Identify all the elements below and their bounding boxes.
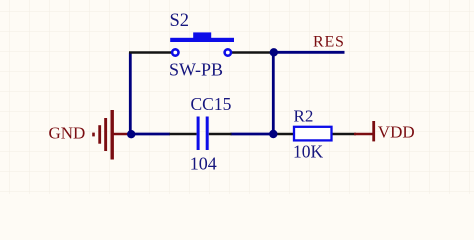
pin: resistor right lead bbox=[332, 133, 357, 135]
svg-text:CC15: CC15 bbox=[191, 94, 232, 114]
junction: bottom right node bbox=[269, 130, 277, 138]
pin: S2 pin 2 (black lead) bbox=[232, 51, 274, 53]
wire: left vertical net segment bbox=[129, 53, 132, 135]
comment SW-PB bbox=[169, 59, 223, 79]
wire: RES net horizontal segment bbox=[273, 51, 344, 54]
value label 104 bbox=[190, 154, 217, 174]
svg-text:SW-PB: SW-PB bbox=[169, 59, 223, 79]
net name GND bbox=[49, 124, 86, 143]
wire: right vertical net segment bbox=[272, 52, 275, 134]
value label 10K bbox=[293, 142, 324, 162]
svg-text:104: 104 bbox=[190, 154, 217, 174]
resistor R2 body bbox=[294, 127, 332, 141]
designator R2 bbox=[294, 106, 314, 125]
pin: capacitor right lead bbox=[209, 133, 232, 135]
svg-text:S2: S2 bbox=[170, 11, 190, 31]
pin: resistor left lead bbox=[273, 133, 294, 135]
wire: bottom rail GND-junction to capacitor bbox=[131, 133, 170, 136]
svg-text:GND: GND bbox=[49, 124, 86, 143]
switch S2 body (push button bar and cap) bbox=[170, 32, 234, 42]
pin: capacitor left lead bbox=[170, 133, 197, 135]
ground power port GND bbox=[92, 110, 131, 160]
designator CC15 bbox=[191, 94, 232, 114]
capacitor C1 plates bbox=[197, 117, 209, 151]
net label RES bbox=[313, 33, 345, 50]
junction: RES node top bbox=[270, 48, 278, 56]
junction: GND node bbox=[127, 130, 135, 138]
pin: S2 pin 1 (black lead) bbox=[129, 51, 172, 53]
svg-text:VDD: VDD bbox=[378, 123, 415, 142]
net name VDD bbox=[378, 123, 415, 142]
switch S2 terminal circle pin1 bbox=[172, 49, 178, 55]
designator S2 bbox=[170, 11, 190, 31]
power port VDD bbox=[354, 121, 375, 141]
svg-text:R2: R2 bbox=[294, 106, 314, 125]
wire: bottom rail capacitor to right junction bbox=[231, 133, 274, 136]
svg-text:10K: 10K bbox=[293, 142, 324, 162]
switch S2 terminal circle pin2 bbox=[225, 49, 231, 55]
svg-text:RES: RES bbox=[313, 33, 345, 50]
